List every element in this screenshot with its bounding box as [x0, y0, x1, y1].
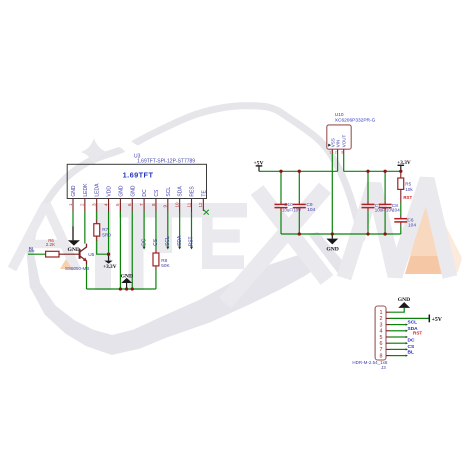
J3 pin stubs — [386, 312, 390, 355]
svg-text:J3: J3 — [381, 365, 386, 370]
svg-text:+5V: +5V — [432, 317, 443, 323]
svg-text:U10: U10 — [335, 112, 344, 118]
svg-text:9: 9 — [163, 205, 168, 208]
capacitor C9 — [293, 171, 316, 234]
connector J3 body — [375, 306, 386, 360]
svg-text:GND: GND — [130, 185, 136, 197]
junction C10 top — [279, 170, 282, 173]
letter A — [12, 204, 76, 269]
svg-text:1: 1 — [380, 310, 383, 316]
svg-text:GND: GND — [118, 185, 124, 197]
svg-text:BL: BL — [408, 349, 414, 355]
svg-text:3: 3 — [380, 322, 383, 328]
wire pin5 down — [119, 212, 121, 289]
U10 pin numbers — [329, 150, 343, 154]
ground flag regulator — [326, 234, 338, 252]
wire pin7 down — [143, 212, 145, 247]
wire VOUT down — [343, 154, 345, 172]
svg-text:VIN: VIN — [336, 140, 341, 148]
svg-text:5R0: 5R0 — [102, 233, 111, 238]
no-connect X on pin12 TE — [204, 210, 209, 215]
svg-text:R5: R5 — [405, 181, 411, 186]
svg-text:3: 3 — [341, 150, 343, 154]
svg-text:RST: RST — [403, 195, 412, 200]
svg-text:SCL: SCL — [408, 319, 418, 325]
ground flag J3 — [398, 297, 410, 308]
capacitor C7 — [362, 171, 394, 234]
svg-text:LEDK: LEDK — [83, 183, 89, 197]
svg-text:2.2K: 2.2K — [46, 242, 55, 247]
wire pin8 — [390, 355, 406, 357]
svg-text:4: 4 — [380, 329, 383, 335]
svg-text:12: 12 — [198, 202, 203, 208]
svg-text:C9: C9 — [306, 202, 312, 208]
svg-text:2: 2 — [80, 203, 85, 206]
junction C8 top — [383, 170, 386, 173]
wire pin2 to +5V — [390, 317, 429, 319]
wire pin4 down — [108, 212, 110, 254]
wire pin6 down — [131, 212, 133, 289]
capacitor C8 — [379, 171, 401, 234]
U3 pin numbers 1-12 — [68, 202, 203, 208]
wire pin5 — [390, 336, 406, 338]
svg-text:DC: DC — [408, 338, 415, 344]
resistor R6 — [46, 238, 59, 257]
svg-text:2: 2 — [380, 316, 383, 322]
svg-text:8: 8 — [151, 203, 156, 206]
J3 pin numbers — [380, 310, 383, 359]
junction R5 top — [399, 170, 402, 173]
svg-text:8: 8 — [380, 353, 383, 359]
wire pin7 — [390, 348, 406, 350]
wire VSS to gnd rail — [331, 154, 333, 235]
svg-text:SDA: SDA — [178, 186, 184, 197]
svg-text:1.69TFT-SPI-12P-ST7789: 1.69TFT-SPI-12P-ST7789 — [137, 159, 195, 165]
wire bottom gnd rail — [87, 288, 156, 290]
wire emitter down — [86, 265, 88, 290]
sparkle white — [116, 134, 140, 158]
svg-text:LEDA: LEDA — [95, 183, 101, 197]
power flag +5V J3 — [429, 315, 443, 324]
junction C8 bottom — [383, 232, 386, 235]
wire R7 bottom to +3.3V junction — [97, 240, 109, 254]
svg-text:6: 6 — [380, 341, 383, 347]
capacitor C10 — [275, 171, 302, 234]
svg-text:50K: 50K — [161, 263, 170, 268]
wire pin3 — [390, 324, 406, 326]
svg-text:10k: 10k — [405, 187, 413, 192]
svg-text:GND: GND — [71, 185, 77, 197]
svg-text:DC: DC — [142, 189, 148, 197]
wire gnd rail — [281, 233, 401, 235]
wire pin1 down — [72, 212, 74, 227]
svg-text:5: 5 — [115, 203, 120, 206]
svg-text:GND: GND — [326, 246, 338, 252]
letter T — [119, 203, 247, 290]
junction C9 top — [298, 170, 301, 173]
orange triangle — [405, 191, 453, 274]
letter I — [95, 203, 111, 290]
svg-text:104: 104 — [408, 223, 416, 229]
svg-text:VOUT: VOUT — [342, 135, 347, 148]
wire pin11 down — [191, 212, 193, 247]
power flag +3.3V right — [397, 160, 411, 171]
wire pin10 down — [179, 212, 181, 247]
wire pin9 down — [167, 212, 169, 247]
wire VIN to +5V rail — [337, 154, 339, 172]
svg-text:11: 11 — [186, 202, 191, 207]
svg-text:CS: CS — [408, 344, 415, 350]
svg-text:1: 1 — [329, 150, 331, 154]
letter M — [344, 179, 450, 278]
wire R8 bottom — [155, 270, 157, 290]
wire R6 to Q base — [59, 253, 79, 255]
IC U3 body — [67, 164, 206, 198]
svg-text:2: 2 — [335, 150, 337, 154]
svg-text:6: 6 — [127, 203, 132, 206]
junction pin5 rail — [119, 287, 122, 290]
svg-text:+3.3V: +3.3V — [103, 264, 117, 270]
svg-text:104: 104 — [392, 207, 400, 213]
svg-text:R8: R8 — [161, 258, 167, 263]
IC U10 body — [327, 125, 351, 149]
ground flag bottom GND — [121, 273, 133, 289]
svg-text:GND: GND — [67, 247, 79, 253]
transistor U5 SS8050 — [65, 244, 95, 272]
svg-text:RST: RST — [413, 330, 422, 335]
wire +5V rail — [259, 170, 338, 172]
svg-text:R7: R7 — [102, 227, 108, 232]
letter E — [202, 217, 244, 269]
power flag +3.3V — [103, 254, 117, 270]
svg-text:HDR-M-2.54_1x8: HDR-M-2.54_1x8 — [352, 360, 388, 365]
svg-text:VSS: VSS — [330, 138, 335, 147]
U10 pin names — [330, 135, 346, 148]
wire +3.3V rail — [344, 170, 401, 172]
sparkle gray — [81, 138, 107, 166]
resistor R7 — [94, 220, 111, 241]
svg-text:U5: U5 — [88, 252, 94, 258]
svg-text:SS8050-MB: SS8050-MB — [65, 266, 89, 271]
svg-text:7: 7 — [139, 203, 144, 206]
resistor R5 — [398, 171, 414, 202]
svg-text:SDA: SDA — [177, 235, 183, 246]
capacitor C6 — [394, 203, 416, 235]
wire pin4 — [390, 330, 406, 332]
net label BL — [28, 247, 35, 253]
U10 pin stubs — [332, 149, 343, 153]
wire pin8 down to R8 — [155, 212, 157, 250]
U10 pin1 marker — [328, 144, 331, 147]
svg-text:1: 1 — [68, 203, 73, 206]
svg-text:4: 4 — [103, 203, 108, 206]
power flag +5V — [253, 161, 263, 172]
wire pin6 — [390, 342, 406, 344]
svg-text:DC: DC — [141, 238, 147, 246]
svg-text:CS: CS — [154, 189, 160, 197]
svg-text:GND: GND — [121, 273, 133, 279]
ground flag pin1 GND — [67, 227, 79, 253]
junction +3.3V node — [107, 253, 110, 256]
junction VSS gnd — [331, 232, 334, 235]
wire pin2 down to Q collector — [84, 212, 86, 244]
svg-text:3: 3 — [92, 203, 97, 206]
U3 pin stubs 1-12 — [73, 198, 203, 212]
wire pin3 R7 upper — [96, 212, 98, 220]
svg-text:SCL: SCL — [165, 236, 171, 246]
svg-text:XC6206P332PR-G: XC6206P332PR-G — [335, 117, 376, 123]
wire BL to R6 — [28, 253, 46, 255]
svg-text:TE: TE — [201, 190, 207, 197]
svg-text:7: 7 — [380, 347, 383, 353]
svg-text:VDD: VDD — [107, 186, 113, 197]
net arrows pins 7,9,10,11 — [143, 247, 193, 250]
svg-text:104: 104 — [307, 207, 315, 213]
svg-text:SCL: SCL — [166, 187, 172, 197]
resistor R8 — [153, 250, 171, 270]
svg-text:GND: GND — [398, 297, 410, 303]
junction pin6 rail — [131, 287, 134, 290]
net arrows J3 pins 3-8 — [406, 323, 408, 356]
wire pin1 to gnd — [390, 308, 404, 312]
svg-text:CS: CS — [153, 238, 159, 246]
junction C9 bottom — [298, 232, 301, 235]
junction C7 bottom — [366, 232, 369, 235]
svg-text:10: 10 — [174, 202, 179, 208]
svg-text:1.69TFT: 1.69TFT — [123, 171, 154, 180]
U3 pin names — [71, 183, 207, 197]
svg-text:RES: RES — [190, 186, 196, 197]
letter X — [225, 188, 327, 303]
junction gnd stem rail — [125, 287, 128, 290]
svg-text:RST: RST — [189, 236, 195, 246]
junction C7 top — [366, 170, 369, 173]
svg-text:5: 5 — [380, 335, 383, 341]
